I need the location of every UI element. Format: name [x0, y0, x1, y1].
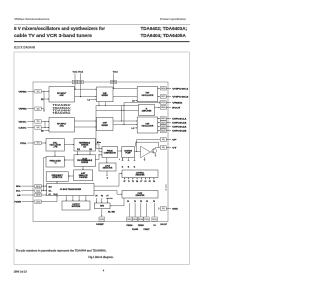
figure note [16, 248, 107, 252]
svg-text:TDA6404; TDA6405A: TDA6404; TDA6405A [141, 33, 187, 39]
svg-text:26(29): 26(29) [139, 219, 144, 221]
pin SDA [16, 184, 47, 188]
svg-text:P1/AD5: P1/AD5 [132, 228, 138, 231]
svg-text:MIXER: MIXER [102, 125, 109, 127]
ground at transistor emitter [155, 155, 157, 156]
svg-text:UHFOSC1B: UHFOSC1B [172, 123, 187, 125]
svg-text:UHFOSC2B: UHFOSC2B [172, 131, 187, 133]
svg-text:+ FM: + FM [53, 146, 58, 148]
power pin VCC2 [78, 72, 84, 98]
block R2: port register [122, 191, 158, 199]
svg-text:Fig.1 Block diagram.: Fig.1 Block diagram. [88, 255, 114, 259]
pin AS [17, 193, 47, 197]
svg-text:REGISTER: REGISTER [136, 174, 145, 176]
svg-text:BLOCK DIAGRAM: BLOCK DIAGRAM [14, 46, 35, 50]
svg-text:REFERENCE: REFERENCE [79, 142, 91, 144]
wires M1 to O1 [113, 88, 137, 97]
svg-text:VRFIN2: VRFIN2 [19, 109, 28, 111]
block CP: charge pump [122, 147, 135, 158]
svg-text:DIVIDER: DIVIDER [81, 144, 89, 146]
pin VRF2 (2) [19, 107, 45, 111]
svg-text:VHFOSC1: VHFOSC1 [172, 88, 189, 90]
I2C block inner labels [49, 185, 82, 196]
svg-text:P6: P6 [145, 181, 147, 183]
footer page number [103, 268, 105, 272]
figure caption [88, 255, 114, 259]
block E: prescaler [46, 157, 64, 168]
svg-text:P7: P7 [140, 181, 142, 183]
title right line 1: part numbers [141, 26, 188, 32]
header right: Product specification [160, 17, 186, 21]
footer date [14, 271, 28, 274]
LO arrow into O2 [132, 127, 138, 130]
svg-text:PORT: PORT [138, 193, 144, 195]
block G: frequency detector [46, 172, 68, 182]
block J: output buffers [62, 201, 90, 210]
svg-text:2(2): 2(2) [37, 108, 40, 110]
svg-text:P5: P5 [96, 196, 98, 198]
block O1: VHF oscillator [137, 87, 157, 102]
svg-text:VCC1: VCC1 [73, 72, 79, 74]
wire G to I2C [56, 181, 57, 183]
wires B to M2 [75, 120, 97, 127]
svg-text:18(20): 18(20) [161, 107, 166, 109]
svg-text:cable TV and VCR 3-band tuners: cable TV and VCR 3-band tuners [14, 33, 92, 39]
svg-text:fc: fc [107, 178, 109, 180]
svg-text:VCC3: VCC3 [113, 72, 119, 74]
svg-text:8(8): 8(8) [162, 139, 165, 141]
svg-text:SDA: SDA [49, 185, 53, 188]
svg-text:UHF: UHF [103, 123, 108, 125]
svg-text:LO: LO [88, 99, 91, 101]
svg-text:19(21): 19(21) [161, 118, 166, 120]
capacitor mark at VREG pin [124, 101, 159, 104]
pin AGC2 (4) [19, 126, 50, 130]
figure code MGL297 [160, 224, 167, 226]
wire CP to op-amp [134, 151, 140, 153]
svg-text:REGISTER: REGISTER [136, 195, 145, 197]
wire C to D [64, 144, 74, 145]
svg-text:15-BIT: 15-BIT [82, 158, 88, 160]
comparator tap labels [119, 158, 123, 161]
svg-text:P4: P4 [153, 180, 155, 183]
port register bottom labels [127, 200, 155, 203]
svg-text:B1: B1 [41, 99, 43, 101]
svg-text:VHF: VHF [146, 93, 151, 95]
svg-text:10(10): 10(10) [36, 186, 41, 188]
svg-text:OS: OS [136, 181, 138, 183]
svg-text:IFOUT: IFOUT [172, 108, 181, 110]
svg-text:t1: t1 [122, 166, 124, 169]
IF wire lower from M2 to Q [96, 105, 139, 110]
transistor Q1 at tuning output [150, 148, 156, 156]
svg-text:1(1): 1(1) [37, 91, 40, 93]
input label B1 into RF input A [41, 98, 49, 101]
svg-text:DETECTOR: DETECTOR [52, 177, 63, 179]
power pin VCC3 [111, 72, 119, 89]
bus arrow to port register [106, 198, 113, 199]
block A: RF input/AGC amplifier (VHF) [49, 87, 75, 103]
block F: programmable divider [74, 155, 95, 167]
wire D to P [95, 144, 102, 152]
wire H to G [68, 175, 73, 176]
svg-text:RF INPUT: RF INPUT [57, 123, 67, 125]
svg-text:5(5): 5(5) [37, 121, 40, 123]
svg-text:P1: P1 [134, 201, 136, 203]
section heading BLOCK DIAGRAM [14, 46, 35, 50]
svg-text:XTAL: XTAL [53, 141, 58, 144]
svg-text:B2: B2 [41, 130, 43, 132]
wire I2C to control register [94, 173, 122, 186]
svg-text:P3/AD7: P3/AD7 [144, 228, 150, 231]
port pins P0-P4 at bottom [126, 203, 157, 231]
svg-text:VCC2: VCC2 [78, 72, 84, 74]
svg-text:DETECTOR: DETECTOR [103, 168, 113, 170]
svg-text:7(7): 7(7) [37, 143, 40, 145]
svg-text:VHFOSC2: VHFOSC2 [172, 97, 189, 99]
svg-text:P2: P2 [140, 201, 142, 203]
svg-text:14(16): 14(16) [161, 87, 166, 90]
svg-text:t2: t2 [128, 166, 130, 169]
svg-text:T1: T1 [128, 181, 130, 183]
svg-text:1996 Jul 15: 1996 Jul 15 [14, 271, 28, 274]
svg-text:P3/SW: P3/SW [15, 202, 22, 204]
svg-text:P2/AD6: P2/AD6 [138, 224, 144, 227]
svg-text:P4: P4 [154, 224, 156, 227]
pin VHF tank 2 [158, 95, 190, 99]
wires I2C to output buffers [66, 196, 87, 202]
svg-text:PRESCALER: PRESCALER [50, 159, 62, 162]
wire F to H [82, 166, 83, 170]
svg-text:6(6): 6(6) [37, 127, 40, 129]
svg-text:RF INPUT: RF INPUT [57, 93, 67, 95]
svg-text:MGL297: MGL297 [160, 224, 167, 226]
svg-text:15(17): 15(17) [161, 96, 166, 98]
svg-text:FREQUENCY: FREQUENCY [52, 175, 64, 177]
svg-text:17(19): 17(19) [161, 102, 166, 104]
pin UHF tank 2B [158, 129, 187, 133]
block I: I2C-bus transceiver [47, 183, 94, 195]
svg-text:128: 128 [89, 149, 92, 151]
svg-text:GND: GND [172, 209, 178, 211]
device list text [53, 104, 72, 115]
pin VREG [159, 101, 183, 105]
block LD: lock detector [99, 163, 116, 171]
svg-text:5 V mixers/oscillators and syn: 5 V mixers/oscillators and synthesizers … [14, 26, 105, 32]
title left line 1 [14, 26, 105, 32]
svg-text:MPX: MPX [100, 205, 105, 207]
svg-text:TDA6405A: TDA6405A [53, 112, 72, 115]
pin UHF tank 1B [158, 121, 187, 125]
port name labels above MPX [96, 196, 109, 198]
svg-text:P0: P0 [127, 201, 129, 203]
svg-text:VT: VT [172, 148, 177, 150]
junction on VRF1 wire [43, 91, 44, 92]
svg-text:P0/AD4: P0/AD4 [126, 224, 132, 227]
svg-text:AS: AS [17, 194, 21, 197]
pin GND [160, 207, 178, 211]
svg-text:VRFIN1: VRFIN1 [19, 91, 28, 93]
block M2: UHF mixer [97, 118, 114, 131]
svg-text:VP: VP [172, 140, 177, 142]
block R1: control register [122, 170, 158, 178]
LO arrow into O1 [132, 100, 137, 103]
op-amp loop amplifier [141, 146, 151, 158]
svg-text:Philips Semiconductors: Philips Semiconductors [15, 17, 51, 21]
decoupling mark at VRF2 [43, 91, 45, 112]
svg-text:VREG: VREG [172, 103, 183, 105]
svg-text:27(30): 27(30) [144, 219, 149, 221]
wire M2 riser to IF bus [96, 110, 102, 149]
junction dots AGC wires [44, 121, 45, 128]
svg-text:P4: P4 [153, 200, 155, 203]
pin SCL [16, 189, 47, 193]
svg-text:XTAL: XTAL [20, 142, 27, 145]
header left: Philips Semiconductors [15, 17, 51, 21]
svg-text:BUFFERS: BUFFERS [72, 206, 81, 208]
svg-text:12(12): 12(12) [36, 195, 41, 197]
svg-text:TDA6402/: TDA6402/ [53, 104, 72, 107]
svg-text:Product specification: Product specification [160, 17, 186, 21]
reference divider ratio labels [77, 149, 92, 151]
svg-text:TDA6402; TDA6403A;: TDA6402; TDA6403A; [141, 26, 188, 32]
svg-text:SCL: SCL [16, 191, 21, 193]
pin IFOUT [155, 106, 182, 110]
svg-text:9(9): 9(9) [162, 147, 165, 149]
svg-text:PUMP: PUMP [125, 153, 131, 155]
svg-text:24(27): 24(27) [127, 218, 132, 221]
pin P3/SW [15, 200, 58, 204]
wire P down to lock detector [106, 158, 107, 164]
MPX output to UREF pin [101, 209, 116, 217]
svg-text:4: 4 [103, 268, 105, 272]
svg-text:CONTROL: CONTROL [136, 172, 144, 174]
svg-text:P5: P5 [149, 181, 151, 183]
svg-text:P7: P7 [107, 196, 109, 198]
svg-text:IF: IF [146, 109, 148, 111]
block K: port multiplexer [94, 203, 110, 209]
svg-text:LO: LO [132, 128, 135, 130]
pin UHF tank 1A [158, 117, 187, 121]
svg-text:SDA: SDA [16, 185, 21, 188]
node label fvco [97, 142, 101, 144]
current source stubs under charge pump [122, 158, 136, 169]
svg-text:TDA6403A/: TDA6403A/ [53, 107, 72, 110]
feedback wire over op-amp [136, 142, 159, 148]
block B: RF input/AGC amplifier (UHF) [49, 118, 75, 133]
svg-text:T: T [166, 190, 167, 192]
svg-text:11(11): 11(11) [36, 190, 41, 192]
svg-text:fBL / fBU: fBL / fBU [108, 211, 116, 213]
block P: phase comparator [102, 147, 118, 158]
pin UREF at bottom [96, 217, 105, 226]
svg-text:UHFOSC1A: UHFOSC1A [172, 118, 187, 121]
svg-text:UREF: UREF [96, 224, 105, 226]
svg-text:P6: P6 [101, 196, 103, 198]
wire C down to E [54, 151, 55, 157]
svg-text:28(31): 28(31) [152, 219, 157, 221]
pin VT [156, 146, 178, 150]
svg-text:20(22): 20(22) [161, 122, 166, 124]
wire F to P [95, 154, 102, 159]
wire I2C to port register [94, 191, 122, 195]
title right line 2: part numbers [141, 33, 187, 39]
svg-text:I²C-BUS TRANSCEIVER: I²C-BUS TRANSCEIVER [60, 188, 82, 191]
pin VP [137, 138, 178, 142]
resistor to ground below op-amp [144, 157, 146, 161]
svg-text:COUNTER: COUNTER [79, 177, 88, 179]
figure frame [14, 52, 189, 265]
svg-text:P3: P3 [146, 201, 148, 203]
block M1: VHF mixer [97, 87, 114, 102]
pin VHF tank 1 [158, 87, 190, 91]
pin UHF tank 2A [158, 125, 187, 129]
svg-text:CAGC: CAGC [19, 127, 28, 130]
svg-text:CHARGE: CHARGE [124, 150, 133, 153]
svg-text:21(23): 21(23) [161, 126, 166, 128]
pin XTAL (5) [20, 141, 46, 145]
svg-text:SCL: SCL [49, 191, 52, 193]
svg-text:2(2): 2(2) [162, 208, 165, 210]
header rule [14, 24, 190, 26]
block D: reference divider [74, 139, 95, 152]
svg-text:MIXER: MIXER [102, 95, 109, 97]
svg-text:512: 512 [77, 149, 80, 151]
wires M2 to O2 [113, 120, 137, 125]
input label B2 into RF input B [41, 130, 49, 133]
control register output stubs [123, 178, 155, 183]
svg-text:13(13): 13(13) [36, 201, 41, 203]
svg-text:CP: CP [123, 181, 125, 183]
wire register to MPX right [110, 198, 124, 206]
svg-text:22(24): 22(24) [161, 129, 166, 132]
svg-text:DIVIDER: DIVIDER [81, 162, 89, 164]
title rule [14, 40, 190, 44]
svg-text:4-BIT: 4-BIT [81, 172, 86, 175]
vertical bus pair to UHF osc [121, 103, 125, 125]
svg-text:PHASE: PHASE [107, 150, 114, 153]
svg-text:23(26): 23(26) [100, 219, 105, 221]
svg-text:VAGC: VAGC [19, 121, 28, 124]
block H: swallow counter [74, 170, 93, 181]
wires into MPX [96, 198, 108, 203]
svg-text:The pin numbers in parenthesis: The pin numbers in parenthesis represent… [16, 248, 107, 252]
readback wire around prescaler [43, 158, 46, 191]
pin VRF1 (1) [19, 90, 50, 94]
wire GND inside [159, 207, 161, 210]
IC boundary [33, 82, 168, 222]
svg-text:UHF: UHF [146, 124, 151, 126]
svg-text:25(28): 25(28) [133, 219, 138, 221]
lock detector output down [106, 171, 108, 180]
pin AGC1 (3) [19, 120, 50, 124]
test output stub [165, 184, 166, 192]
LO arrow into M1 [88, 99, 97, 102]
wire F to E [64, 159, 74, 160]
block O2: UHF oscillator [137, 117, 157, 133]
IF wire upper from M1 to Q [96, 102, 139, 106]
wire P to CP [118, 150, 122, 151]
power pin VCC1 [72, 72, 78, 90]
svg-text:OUTPUT: OUTPUT [72, 204, 80, 206]
svg-text:fref: fref [83, 146, 86, 148]
svg-text:TDA6404/: TDA6404/ [53, 110, 72, 113]
VP wire to charge pump node [136, 140, 137, 153]
svg-text:t: t [119, 158, 120, 161]
wire P3 up into I2C block [56, 196, 57, 202]
wires D to F [77, 151, 91, 155]
svg-text:UHFOSC2A: UHFOSC2A [172, 126, 187, 129]
wires A to M1 [74, 89, 96, 98]
svg-text:AS: AS [49, 193, 51, 196]
svg-text:LOCK: LOCK [105, 166, 111, 168]
svg-text:t3: t3 [134, 166, 136, 169]
title left line 2 [14, 33, 92, 39]
block C: crystal oscillator [46, 139, 64, 152]
block Q: IF amplifier [139, 105, 155, 116]
svg-text:T0: T0 [132, 181, 134, 183]
svg-text:VHF: VHF [103, 93, 108, 95]
